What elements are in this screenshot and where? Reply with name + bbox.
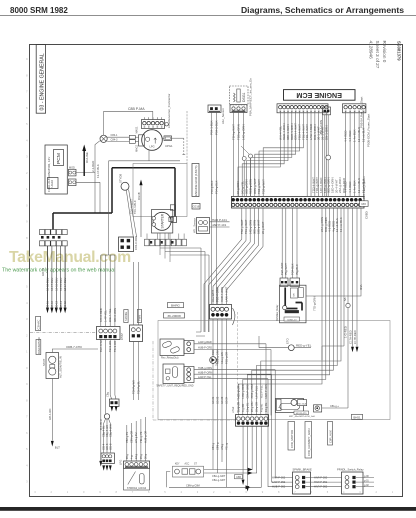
svg-text:C8g-4-WH: C8g-4-WH — [108, 424, 112, 437]
wires oil-water relay feeds — [281, 208, 283, 278]
svg-text:26-g: 26-g — [126, 453, 129, 459]
relay input connector b — [290, 278, 300, 286]
submodule terminal box — [48, 178, 59, 189]
module A2 FUEL ALTERNATOR 12V — [45, 145, 67, 194]
svg-text:UPG1: UPG1 — [165, 144, 173, 148]
svg-text:7: 7 — [26, 415, 28, 419]
svg-text:18D-g-WHT: 18D-g-WHT — [257, 219, 261, 234]
svg-text:C016: C016 — [193, 205, 200, 209]
svg-text:HUB-g-ORN: HUB-g-ORN — [237, 384, 241, 399]
svg-text:9: 9 — [26, 382, 28, 386]
key switch chain — [173, 466, 204, 477]
svg-text:HAR-P-052: HAR-P-052 — [272, 475, 286, 479]
svg-text:ACC: ACC — [185, 463, 190, 466]
starter motor M1 — [152, 210, 173, 234]
svg-text:13-18-BLU: 13-18-BLU — [46, 278, 50, 291]
svg-text:MAG2: MAG2 — [136, 144, 139, 152]
wires above connector A — [100, 255, 102, 327]
svg-text:MX: MX — [361, 202, 366, 206]
inline splice S1 — [243, 113, 245, 157]
wires starter leads down — [159, 233, 161, 255]
connector SPARK_BRAKE — [293, 472, 311, 494]
svg-text:HAR P-101: HAR P-101 — [212, 218, 227, 222]
wires below connector C — [213, 319, 227, 487]
svg-text:LPG: LPG — [150, 146, 155, 149]
svg-text:4: 4 — [26, 463, 28, 467]
svg-text:STOT: STOT — [42, 358, 46, 366]
relay heater bar — [285, 310, 299, 313]
wire 1-G-RED to fuel sender with splice — [347, 208, 349, 303]
svg-text:C8R_AUX: C8R_AUX — [329, 430, 333, 443]
svg-text:1-4n-BLK: 1-4n-BLK — [353, 180, 357, 193]
harness boundary dash line — [237, 312, 239, 415]
connector PRNDL_Switch_Relay — [342, 472, 364, 494]
svg-text:C8BD: C8BD — [365, 211, 369, 219]
svg-text:TDI-Pg-WH: TDI-Pg-WH — [131, 380, 135, 394]
fuse F4 — [129, 140, 135, 144]
svg-text:2-1-RED: 2-1-RED — [91, 161, 95, 172]
wire sense lead — [148, 150, 150, 161]
svg-text:Revision 0: Revision 0 — [382, 41, 387, 63]
svg-text:LAW-P-052: LAW-P-052 — [272, 480, 286, 484]
svg-text:P04-1-BLK: P04-1-BLK — [210, 120, 214, 135]
wire lamp to alternator 2 — [107, 140, 129, 142]
svg-text:040-6-RED: 040-6-RED — [99, 308, 103, 322]
svg-text:1: 1 — [67, 490, 69, 494]
svg-text:JAR P-101: JAR P-101 — [212, 223, 227, 227]
svg-text:2: 2 — [51, 490, 53, 494]
svg-text:14D-g-ORN: 14D-g-ORN — [242, 124, 246, 140]
connector code box C8M — [235, 475, 243, 479]
svg-text:0: 0 — [26, 203, 28, 207]
wire post diagonal 2 — [129, 190, 137, 237]
vertical label C8R_GRN8RY — [305, 422, 312, 459]
alternator terminal block — [139, 135, 145, 146]
svg-text:OULINE: OULINE — [85, 152, 89, 163]
svg-text:8: 8 — [116, 490, 118, 494]
wire fuse drop — [94, 172, 96, 174]
svg-text:13-nm-BLK: 13-nm-BLK — [357, 178, 361, 193]
svg-text:SMOKE: SMOKE — [125, 312, 128, 321]
svg-text:9: 9 — [26, 220, 28, 224]
svg-text:TD3-g-WHT: TD3-g-WHT — [257, 179, 261, 194]
svg-text:5: 5 — [327, 490, 329, 494]
svg-text:9: 9 — [99, 490, 101, 494]
svg-text:PRNDL_Switch_Relay: PRNDL_Switch_Relay — [337, 468, 364, 472]
feeder bus stub — [101, 254, 115, 256]
svg-text:08D-g-GRN: 08D-g-GRN — [253, 220, 257, 234]
svg-text:LAW-4-WHT: LAW-4-WHT — [225, 286, 229, 302]
svg-text:Rev_Relay(Out): Rev_Relay(Out) — [161, 357, 179, 360]
svg-text:A1a-g-WH: A1a-g-WH — [220, 352, 224, 364]
svg-text:6: 6 — [26, 106, 28, 110]
svg-text:C84-C4RD: C84-C4RD — [134, 236, 138, 250]
svg-text:LAW-g-RED: LAW-g-RED — [198, 341, 212, 344]
inline splice S3 — [241, 146, 249, 154]
svg-text:BHRG: BHRG — [171, 304, 180, 308]
svg-text:HAR-P-050: HAR-P-050 — [314, 475, 328, 479]
svg-text:JB0-1-GRN: JB0-1-GRN — [319, 120, 323, 135]
svg-text:SS081379: SS081379 — [396, 41, 401, 61]
svg-text:C0841-10: C0841-10 — [287, 319, 297, 321]
svg-text:LPG: LPG — [119, 460, 123, 465]
svg-text:DIAGNOSTIC: DIAGNOSTIC — [37, 337, 41, 354]
svg-text:3K-20008: 3K-20008 — [167, 314, 181, 318]
ignition coil K1 DSG1 — [230, 86, 249, 105]
svg-text:C8M-g-C8M: C8M-g-C8M — [186, 484, 200, 487]
bottom ground arrows pair — [242, 480, 245, 485]
svg-text:GD-4: GD-4 — [102, 443, 106, 450]
svg-text:LAW-P-YEL: LAW-P-YEL — [198, 376, 212, 379]
splice junction ETO — [288, 345, 294, 351]
svg-text:8000 SRM 1982: 8000 SRM 1982 — [10, 6, 68, 15]
svg-text:C8R_MOTOR: C8R_MOTOR — [290, 430, 294, 448]
charge indicator lamp H1 — [100, 135, 107, 142]
svg-text:GB-4-RD: GB-4-RD — [48, 409, 52, 420]
wire A1 to ground arrow — [100, 340, 102, 461]
connector C 4-pin inline — [210, 305, 232, 320]
svg-text:Sheet 3 of 27: Sheet 3 of 27 — [375, 41, 380, 69]
relay K3 wires — [194, 343, 266, 345]
starter link corners to relays — [196, 332, 205, 336]
svg-text:STWRG2_LDKG3: STWRG2_LDKG3 — [127, 487, 147, 490]
fuse F2 with holder — [69, 179, 77, 186]
relay K3 Rev_Relay — [160, 339, 184, 356]
relay K4 wires — [194, 369, 275, 371]
relay K3 connector — [184, 341, 194, 354]
svg-text:GD-24: GD-24 — [226, 396, 229, 404]
svg-text:DSG1: DSG1 — [242, 92, 246, 102]
frame zone ticks bottom — [34, 490, 394, 494]
sense wire along cable — [109, 160, 180, 162]
svg-text:TO4-WHT: TO4-WHT — [280, 262, 284, 275]
wires from connector J2 — [324, 115, 326, 197]
label box PWM — [137, 310, 141, 323]
svg-text:7: 7 — [294, 490, 296, 494]
svg-text:DIL4B: DIL4B — [137, 192, 141, 200]
alternator G1 — [142, 130, 163, 151]
svg-text:8: 8 — [26, 236, 28, 240]
svg-text:04-g-GRN: 04-g-GRN — [236, 181, 240, 194]
relay switch bar right — [296, 303, 303, 311]
harness boundary chain line horizontal — [153, 419, 236, 421]
svg-text:g-02: g-02 — [364, 484, 369, 487]
svg-text:g-01: g-01 — [364, 480, 369, 483]
svg-text:3: 3 — [359, 490, 361, 494]
svg-text:4: 4 — [26, 138, 28, 142]
svg-text:HUB-g-ORN: HUB-g-ORN — [198, 367, 212, 370]
svg-text:C8g-4-BL: C8g-4-BL — [102, 425, 106, 437]
svg-text:HAR-P-051: HAR-P-051 — [314, 480, 328, 484]
page footer bar — [0, 507, 416, 511]
svg-text:4128946: 4128946 — [369, 41, 374, 60]
vertical label box ENGINE ECM 18473 — [192, 164, 199, 197]
wires PRNDL right stubs — [356, 477, 374, 479]
svg-text:C8M-g-GR: C8M-g-GR — [131, 431, 134, 443]
svg-text:A1n_Sensor: A1n_Sensor — [221, 108, 225, 124]
svg-text:GD-11: GD-11 — [47, 301, 50, 309]
svg-text:SPARK_BRAKE: SPARK_BRAKE — [293, 468, 313, 472]
wires connector B down — [132, 342, 134, 401]
ground wires bundle with arrows — [47, 246, 49, 308]
svg-text:9: 9 — [26, 57, 28, 61]
svg-text:GD-10: GD-10 — [41, 267, 45, 276]
label box BH51 — [352, 414, 363, 419]
wire HAR P-101 — [210, 221, 230, 223]
svg-text:1: 1 — [26, 187, 28, 191]
svg-text:7: 7 — [26, 90, 28, 94]
svg-text:PJG-g-OR: PJG-g-OR — [225, 352, 229, 364]
frame zone ticks left — [26, 57, 28, 484]
svg-text:1: 1 — [392, 490, 394, 494]
svg-text:STYDB: STYDB — [119, 174, 123, 183]
svg-text:GD-23: GD-23 — [221, 396, 224, 404]
wires sensor J3 down — [211, 112, 213, 196]
ECM connector strip P505 5-pin — [343, 104, 366, 113]
svg-text:ENGINE ECM: ENGINE ECM — [296, 91, 342, 100]
wire STOT feed — [52, 349, 98, 353]
svg-text:TD-9-OR: TD-9-OR — [108, 341, 112, 352]
svg-text:C8A-g-GRT: C8A-g-GRT — [212, 475, 226, 478]
svg-text:STARTER: STARTER — [160, 213, 164, 228]
svg-text:4: 4 — [26, 301, 28, 305]
svg-text:DIG-4-YEL: DIG-4-YEL — [108, 308, 112, 322]
boundary line engine harness — [186, 111, 188, 164]
svg-text:C8M-g: C8M-g — [217, 442, 220, 450]
label C0841-10 — [284, 317, 300, 321]
svg-text:TD4-g-WHT: TD4-g-WHT — [232, 124, 236, 140]
connector ATL sensor — [197, 218, 210, 234]
battery distribution block — [40, 230, 45, 235]
svg-text:6: 6 — [26, 431, 28, 435]
svg-text:3: 3 — [34, 490, 36, 494]
svg-text:13-14-BLU: 13-14-BLU — [63, 278, 67, 291]
relay pivot circle — [283, 306, 287, 310]
svg-text:ST: ST — [194, 464, 197, 466]
svg-text:HAR-P-052: HAR-P-052 — [314, 485, 328, 489]
svg-text:0: 0 — [246, 490, 248, 494]
bottom harness connector X2 — [236, 415, 269, 427]
wire right drop to module — [306, 208, 361, 296]
connector B 2-pin — [130, 325, 143, 342]
vertical label box C016 — [192, 204, 200, 210]
svg-text:C8A-g-BL: C8A-g-BL — [126, 431, 129, 443]
wire alternator output to stub — [172, 137, 184, 139]
feed arrow B — [139, 180, 142, 186]
ignition switch S1 connector — [124, 461, 150, 468]
svg-text:13-nm-BLK: 13-nm-BLK — [357, 127, 361, 142]
right bundle jog wires — [238, 208, 322, 415]
svg-text:MRT_4Kxt-MRT+4700_GxD: MRT_4Kxt-MRT+4700_GxD — [289, 415, 316, 418]
svg-text:CDB-7-CHC: CDB-7-CHC — [66, 345, 83, 349]
svg-text:C8g-4-GR: C8g-4-GR — [105, 425, 109, 437]
key switch left link — [167, 472, 171, 488]
svg-text:8: 8 — [278, 490, 280, 494]
battery feed arrows C17 — [352, 208, 354, 347]
connector J2 2-pin — [323, 107, 331, 115]
svg-text:ALT_SDW/TIE_W: ALT_SDW/TIE_W — [59, 356, 63, 378]
fuse F1 with holder — [69, 169, 77, 176]
starter solenoid terminal — [169, 217, 173, 221]
svg-text:C8A-g: C8A-g — [212, 442, 215, 450]
svg-text:2: 2 — [376, 490, 378, 494]
engine block connector C84 — [119, 237, 134, 252]
battery cable B+ run — [53, 168, 175, 230]
svg-text:5: 5 — [26, 122, 28, 126]
svg-text:1: 1 — [26, 350, 28, 354]
svg-text:C17A-RED: C17A-RED — [349, 330, 353, 344]
svg-text:P04-2-BLK: P04-2-BLK — [214, 120, 218, 135]
main harness connector X1 30-pin strip — [232, 196, 365, 208]
fuel sender module — [276, 399, 304, 413]
svg-text:C8M-g-C8M: C8M-g-C8M — [250, 384, 254, 398]
zone label C3HAC — [36, 317, 41, 331]
split connector row — [101, 453, 114, 464]
svg-text:1-4P-YEL: 1-4P-YEL — [104, 310, 108, 322]
terminal post E1 — [121, 182, 129, 190]
svg-text:ATL_Sensor: ATL_Sensor — [193, 218, 197, 233]
svg-text:03 - ENGINE GENERAL: 03 - ENGINE GENERAL — [39, 53, 45, 110]
svg-text:14D-g-ORN: 14D-g-ORN — [248, 220, 252, 234]
zone label 03 - ENGINE GENERAL — [36, 45, 45, 114]
svg-text:3: 3 — [26, 155, 28, 159]
svg-text:g-00: g-00 — [364, 475, 369, 478]
wire post diagonal 1 — [126, 190, 133, 237]
svg-text:TDI-Pg-BL: TDI-Pg-BL — [137, 381, 141, 394]
svg-text:M4A: M4A — [359, 284, 363, 290]
svg-text:13-nb-BLK: 13-nb-BLK — [362, 128, 366, 142]
wires connector B up — [132, 262, 134, 325]
wire bus from ECM P1 pins staircase — [238, 112, 280, 197]
svg-text:The watermark only appears on: The watermark only appears on the web ma… — [2, 268, 115, 274]
svg-text:4-4-RED: 4-4-RED — [348, 130, 352, 142]
svg-text:0: 0 — [26, 366, 28, 370]
svg-text:75g-BLK: 75g-BLK — [295, 264, 299, 275]
svg-text:Oil/Water_Relay: Oil/Water_Relay — [276, 304, 279, 321]
svg-text:C84-1: C84-1 — [111, 134, 118, 137]
svg-text:LIN-g: LIN-g — [221, 443, 224, 450]
svg-text:4: 4 — [181, 490, 183, 494]
relay K4 SAFETY — [163, 364, 184, 384]
mini connector 2-pin — [110, 399, 120, 407]
header divider rule — [0, 15, 416, 17]
svg-text:13-g-BL: 13-g-BL — [246, 402, 250, 412]
fuel sender connector — [314, 405, 322, 412]
svg-text:TD2-g-WHT: TD2-g-WHT — [240, 219, 244, 234]
svg-text:YEL-g-YE: YEL-g-YE — [140, 431, 143, 443]
svg-text:4-4-RED: 4-4-RED — [348, 181, 352, 193]
svg-text:26-g-OR: 26-g-OR — [237, 402, 241, 412]
svg-text:LIN-P-BLU: LIN-P-BLU — [255, 386, 259, 399]
svg-text:LPG2: LPG2 — [232, 406, 235, 413]
svg-text:GD-6: GD-6 — [108, 443, 112, 450]
svg-text:TD5-g-GRN: TD5-g-GRN — [237, 124, 241, 140]
svg-text:4: 4 — [343, 490, 345, 494]
wire fuse F2 output — [76, 181, 100, 183]
svg-text:GRN-g-WHT: GRN-g-WHT — [253, 178, 257, 194]
svg-text:8: 8 — [26, 73, 28, 77]
relay K4 wire drops to spark conn — [275, 370, 292, 478]
submodule PCM — [54, 150, 64, 166]
wire STOT ground — [51, 379, 53, 441]
svg-text:GD-12: GD-12 — [51, 300, 54, 308]
svg-text:4-g-RE: 4-g-RE — [259, 403, 263, 412]
svg-text:4-4-RED: 4-4-RED — [344, 181, 348, 193]
svg-text:P04-g-BLK: P04-g-BLK — [210, 180, 214, 194]
svg-text:C8B P-MA: C8B P-MA — [128, 107, 145, 111]
svg-text:C8A-g-+: C8A-g-+ — [330, 405, 340, 408]
relay K3 wire drops — [265, 344, 267, 416]
chassis harness box — [158, 321, 390, 420]
relay K4 connector — [184, 367, 194, 383]
mini connector arrows — [111, 406, 114, 411]
svg-text:P8A_MAP/ECT_Int_sen_En: P8A_MAP/ECT_Int_sen_En — [249, 78, 253, 116]
svg-text:LPG/Governor_Connector: LPG/Governor_Connector — [167, 94, 171, 129]
svg-text:LIN-g-BU: LIN-g-BU — [135, 432, 138, 443]
ECM block U1 ENGINE ECM — [284, 90, 356, 101]
svg-text:080-6-ORN: 080-6-ORN — [113, 308, 117, 322]
label MOLW box — [294, 411, 309, 415]
svg-text:P95-5A,Batt_Pwr_Start: P95-5A,Batt_Pwr_Start — [360, 97, 364, 128]
svg-text:3: 3 — [197, 490, 199, 494]
power feed arrow A — [82, 145, 86, 152]
svg-text:26-g-OR: 26-g-OR — [255, 402, 259, 412]
svg-text:C8A-P-GR8: C8A-P-GR8 — [246, 384, 250, 398]
svg-text:13-g: 13-g — [135, 453, 138, 459]
svg-text:HUB-P-052: HUB-P-052 — [272, 485, 286, 489]
svg-text:PWM: PWM — [139, 315, 142, 321]
svg-text:20-g-WHT: 20-g-WHT — [261, 221, 265, 234]
svg-text:HUB-4-ORN: HUB-4-ORN — [220, 287, 224, 302]
svg-text:13-15-BLU: 13-15-BLU — [59, 278, 63, 291]
svg-text:1: 1 — [229, 490, 231, 494]
wires coil connector down — [233, 113, 235, 197]
svg-text:Diagrams, Schematics or Arrang: Diagrams, Schematics or Arrangements — [241, 5, 404, 15]
vertical label C8R aux — [328, 422, 333, 446]
svg-text:BH51: BH51 — [353, 415, 361, 419]
svg-text:TO4-BLK: TO4-BLK — [290, 263, 294, 275]
engine assembly outline — [133, 164, 187, 217]
svg-text:4-4-RED: 4-4-RED — [344, 130, 348, 142]
svg-text:TD2-g-WHT: TD2-g-WHT — [261, 179, 265, 194]
wires SPARK to PRNDL — [306, 477, 342, 479]
label box BHRG — [168, 303, 184, 308]
ignition switch S1 body — [124, 468, 150, 490]
relay coil terminals — [291, 288, 298, 298]
label box 3K-20008 — [164, 313, 185, 318]
svg-text:P505-ECM_Power_Start: P505-ECM_Power_Start — [366, 114, 370, 147]
coil connector 3-pin — [230, 105, 247, 113]
svg-text:4-g: 4-g — [131, 455, 134, 459]
svg-text:13-17-BLU: 13-17-BLU — [50, 278, 54, 291]
wire A2 splice and 3-way split — [105, 340, 107, 414]
svg-text:YEL-P-YEL: YEL-P-YEL — [259, 385, 263, 399]
engine connector row — [145, 239, 150, 246]
svg-text:TD1-g-WHT: TD1-g-WHT — [244, 219, 248, 234]
svg-text:C17B-RED: C17B-RED — [353, 330, 357, 344]
svg-text:77D-g-GRN: 77D-g-GRN — [313, 296, 317, 311]
svg-text:8: 8 — [26, 398, 28, 402]
svg-text:GD-21: GD-21 — [212, 396, 215, 404]
svg-text:'SAFETY'_UNIT_REQUIRED_GND: 'SAFETY'_UNIT_REQUIRED_GND — [156, 384, 194, 387]
svg-text:MOD: MOD — [69, 166, 75, 169]
wire fuel sender to 1-G-RED — [322, 407, 348, 409]
svg-text:BLT: BLT — [55, 446, 60, 450]
svg-text:20-g-WH: 20-g-WH — [250, 401, 254, 412]
svg-text:7: 7 — [132, 490, 134, 494]
wires J3 continue to connector C — [211, 197, 213, 305]
svg-text:GD-13: GD-13 — [55, 300, 58, 308]
